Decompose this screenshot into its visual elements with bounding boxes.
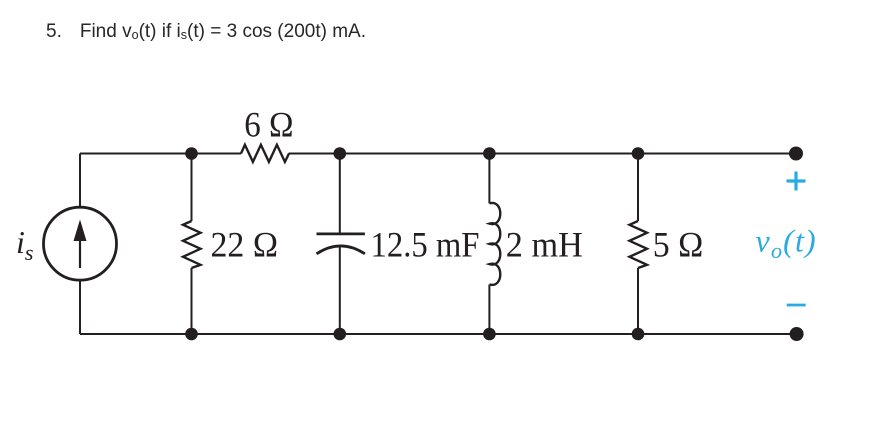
node: junction bottom 3 [483,328,496,341]
node: junction top 2 [334,147,347,160]
terminal: output top [789,147,803,161]
current source is (circle with up arrow) [44,207,117,280]
svg-text:is: is [16,224,33,265]
wire: top rail left segment (source to R6 left lead) [80,153,241,155]
node: junction bottom 2 [334,328,347,341]
label: 22 ohm value [211,225,279,265]
wire: source branch top [79,154,81,208]
wire: source branch bottom [79,280,81,334]
svg-text:vo(t): vo(t) [756,223,817,264]
svg-text:2 mH: 2 mH [506,225,583,265]
inductor L 2mH (vertical branch at node 3) [489,154,500,335]
svg-text:6 Ω: 6 Ω [244,105,293,145]
node: junction bottom 4 [632,328,645,341]
label: is source name [16,224,33,265]
node: junction top 3 [483,147,496,160]
node: junction top 1 [185,147,198,160]
polarity minus sign [787,304,806,307]
label: 12.5 mF value [371,225,480,265]
capacitor C 12.5mF (vertical branch at node 2) [317,154,365,335]
label: 2 mH value [506,225,583,265]
svg-text:22 Ω: 22 Ω [211,225,279,265]
node: junction bottom 1 [185,328,198,341]
title: problem statement [46,22,366,43]
svg-text:5 Ω: 5 Ω [653,225,704,265]
terminal: output bottom [790,327,804,341]
label: vo(t) output voltage [756,223,817,264]
resistor R 22ohm (vertical branch at node 1) [183,154,201,335]
wire: bottom rail [80,333,797,335]
resistor R 5ohm (vertical branch at node 4) [630,154,648,335]
polarity plus sign [787,172,806,191]
wire: top rail right segment (R6 to output terminal) [289,153,796,155]
label: 6 ohm value [244,105,293,145]
resistor R 6ohm (horizontal zigzag on top rail) [241,145,289,162]
label: 5 ohm value [653,225,704,265]
node: junction top 4 [632,147,645,160]
svg-text:12.5 mF: 12.5 mF [371,225,480,265]
